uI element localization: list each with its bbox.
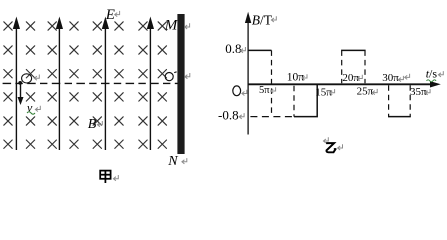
label yi (figure 2)	[326, 143, 336, 152]
label jia (figure 1)	[100, 171, 110, 183]
velocity arrow v (down)	[20, 85, 22, 99]
dashed vertical at 10pi	[293, 86, 295, 117]
E-field line 2 (wire, arrow up)	[58, 22, 60, 150]
B axis (vertical)	[247, 21, 249, 135]
svg-text:M: M	[164, 18, 179, 34]
label O'	[165, 73, 173, 81]
svg-text:35π: 35π	[410, 86, 427, 98]
svg-text:-0.8: -0.8	[218, 108, 239, 123]
E-field line 4 (wire, arrow up)	[149, 22, 151, 150]
svg-text:20π: 20π	[342, 72, 359, 84]
svg-text:B/T: B/T	[252, 12, 273, 27]
svg-text:25π: 25π	[357, 86, 374, 98]
waveform: -0.8 segment 10pi to 15pi (solid)	[294, 84, 317, 116]
pulse 20pi-25pi: solid top, dashed sides	[341, 49, 366, 51]
label O (circle)	[22, 74, 32, 83]
svg-text:t/s: t/s	[426, 67, 438, 81]
svg-text:B: B	[88, 117, 97, 132]
t axis (horizontal)	[248, 83, 435, 85]
svg-text:5π: 5π	[259, 85, 270, 96]
svg-text:0.8: 0.8	[225, 41, 241, 56]
E-field line 3 (wire, arrow up)	[104, 22, 106, 150]
screen MN (thick bar)	[177, 14, 184, 154]
E-field line 1 (wire, arrow up)	[15, 22, 17, 150]
svg-text:10π: 10π	[287, 71, 305, 83]
svg-text:N: N	[167, 154, 178, 169]
svg-text:E: E	[105, 7, 115, 23]
dashed line O-O'	[3, 82, 178, 84]
svg-text:30π: 30π	[382, 72, 399, 84]
dashed horizontal at -0.8	[250, 116, 294, 118]
label O origin	[233, 86, 241, 96]
pulse 30pi-35pi: solid bottom, dashed sides	[388, 116, 411, 118]
waveform: +0.8 segment 0 to 5pi (solid)	[248, 49, 271, 51]
B-field region: grid of x (into page) symbols	[4, 22, 167, 149]
dashed vertical at 5pi	[271, 50, 273, 116]
particle at O (dot)	[18, 81, 22, 85]
